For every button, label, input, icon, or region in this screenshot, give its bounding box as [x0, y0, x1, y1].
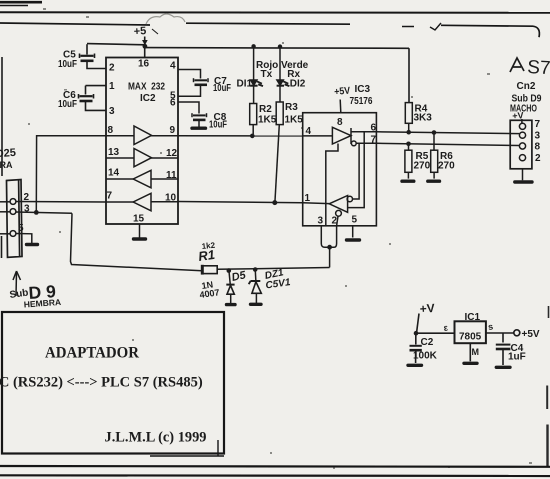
svg-text:ADAPTADOR: ADAPTADOR [45, 345, 139, 362]
svg-text:MAX 232: MAX 232 [128, 82, 165, 93]
svg-text:HEMBRA: HEMBRA [23, 297, 61, 310]
svg-text:J.L.M.L (c) 1999: J.L.M.L (c) 1999 [105, 430, 207, 446]
svg-text:1: 1 [109, 81, 115, 92]
svg-text:7: 7 [535, 119, 541, 130]
svg-text:+5: +5 [133, 25, 146, 38]
svg-text:8: 8 [337, 117, 343, 128]
svg-text:2: 2 [332, 216, 338, 227]
svg-text:3K3: 3K3 [414, 113, 433, 124]
svg-text:C2: C2 [421, 337, 434, 348]
svg-text:16: 16 [138, 59, 150, 70]
svg-text:5: 5 [352, 215, 358, 226]
svg-text:3: 3 [24, 204, 30, 215]
svg-text:10uF: 10uF [209, 120, 227, 131]
svg-text:3: 3 [535, 131, 541, 142]
svg-text:10uF: 10uF [58, 99, 77, 110]
svg-text:1K5: 1K5 [258, 115, 277, 126]
svg-text:75176: 75176 [350, 96, 373, 107]
svg-text:6: 6 [170, 98, 176, 109]
svg-text:5: 5 [18, 223, 24, 234]
svg-text:4007: 4007 [199, 287, 220, 300]
svg-text:BRA: BRA [0, 160, 13, 170]
svg-text:10uF: 10uF [213, 83, 231, 94]
svg-text:ε: ε [443, 322, 449, 333]
svg-text:8: 8 [108, 125, 114, 136]
svg-text:M: M [472, 347, 480, 357]
svg-text:9: 9 [170, 125, 176, 136]
svg-text:1K5: 1K5 [285, 115, 304, 126]
svg-text:15: 15 [133, 214, 145, 225]
svg-text:4: 4 [306, 126, 312, 137]
svg-text:2: 2 [24, 192, 30, 203]
svg-text:S7: S7 [527, 57, 550, 79]
svg-text:2: 2 [535, 153, 541, 164]
svg-text:R3: R3 [285, 102, 298, 113]
svg-text:IC1: IC1 [465, 312, 481, 323]
svg-text:8: 8 [535, 142, 541, 153]
svg-text:C5V1: C5V1 [265, 277, 292, 291]
svg-text:4: 4 [170, 61, 176, 72]
svg-text:7: 7 [371, 135, 377, 146]
svg-text:PC (RS232) <---> PLC S7 (RS485: PC (RS232) <---> PLC S7 (RS485) [0, 375, 203, 391]
svg-text:270: 270 [438, 161, 455, 172]
svg-text:2: 2 [109, 63, 115, 74]
svg-text:1uF: 1uF [508, 352, 526, 363]
svg-text:D25: D25 [0, 147, 16, 160]
svg-text:3: 3 [318, 216, 324, 227]
svg-text:IC3: IC3 [355, 84, 371, 95]
svg-text:+5V: +5V [334, 86, 351, 98]
svg-text:DI1: DI1 [237, 79, 253, 90]
svg-text:10uF: 10uF [58, 59, 77, 70]
svg-text:R2: R2 [259, 104, 272, 115]
svg-text:3: 3 [109, 106, 115, 117]
svg-text:Tx: Tx [261, 69, 273, 80]
svg-text:100K: 100K [413, 351, 438, 362]
svg-text:Cn2: Cn2 [517, 81, 536, 92]
svg-text:IC2: IC2 [140, 93, 156, 104]
svg-text:7805: 7805 [459, 332, 482, 343]
svg-text:270: 270 [414, 161, 431, 172]
svg-text:DI2: DI2 [290, 79, 306, 90]
svg-text:1: 1 [305, 193, 311, 204]
svg-text:s: s [487, 321, 493, 332]
svg-text:+5V: +5V [522, 329, 540, 340]
svg-text:13: 13 [108, 147, 120, 158]
svg-text:+V: +V [419, 301, 435, 316]
svg-text:R1: R1 [197, 247, 216, 264]
svg-text:7: 7 [107, 191, 113, 202]
svg-text:D5: D5 [231, 269, 248, 284]
svg-text:14: 14 [108, 168, 120, 179]
svg-text:6: 6 [371, 123, 377, 134]
